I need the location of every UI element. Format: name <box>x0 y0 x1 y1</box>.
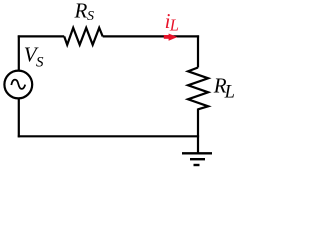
wire bottom horizontal <box>18 135 199 137</box>
svg-text:S: S <box>87 9 94 24</box>
ground <box>182 153 212 165</box>
svg-text:R: R <box>74 0 88 23</box>
wire right vertical upper <box>197 35 199 67</box>
voltage source VS sine wave <box>11 80 25 89</box>
svg-text:L: L <box>224 82 235 102</box>
wire left vertical upper <box>18 35 20 70</box>
svg-text:L: L <box>169 16 179 35</box>
current arrow iL <box>164 34 178 41</box>
wire top-right horizontal <box>103 35 199 37</box>
resistor RS <box>64 28 103 45</box>
svg-text:S: S <box>36 54 44 70</box>
wire right vertical lower <box>197 109 199 153</box>
resistor RL <box>188 68 208 110</box>
wire left vertical lower <box>18 99 20 138</box>
wire top-left horizontal <box>18 35 64 37</box>
voltage source VS circle <box>4 71 32 99</box>
